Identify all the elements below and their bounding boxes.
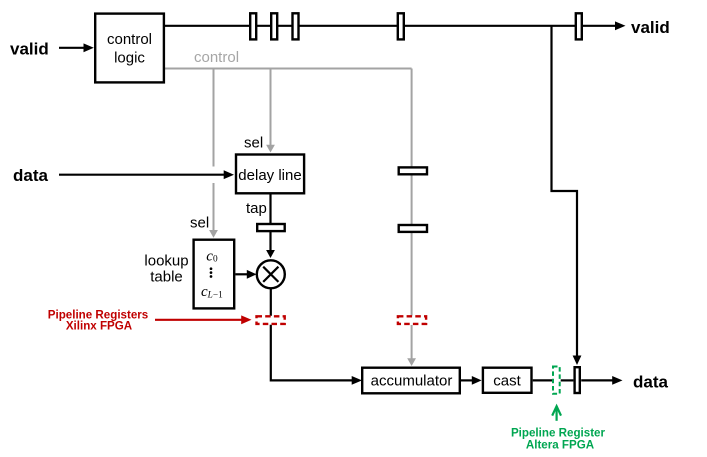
register R9 pipeline register Altera (green dashed) (553, 367, 560, 394)
node lookup table label (144, 253, 188, 286)
svg-text:delay line: delay line (238, 167, 301, 184)
wire gray sel line to delay line (266, 69, 275, 153)
wire arrowhead into output register (573, 356, 582, 366)
register R7 pipeline register Xilinx (red dashed) on multiplier line (257, 316, 285, 324)
svg-text:data: data (633, 372, 669, 391)
register R1 on valid bus (250, 13, 256, 39)
wire tap line from delay line to multiplier (266, 195, 275, 259)
node Pipeline Register Altera FPGA annotation (511, 427, 606, 452)
control logic U1 (95, 14, 164, 83)
wire data output arrow (581, 376, 622, 385)
svg-text:control: control (107, 31, 152, 48)
register R2 on valid bus (271, 13, 277, 39)
cast U5 (483, 368, 532, 393)
register R11 on control line (399, 167, 427, 174)
register R10 output data register (575, 367, 580, 393)
wire red annotation arrow (155, 315, 252, 324)
wire cast to output register (533, 379, 552, 381)
wire between green register and output register (561, 379, 574, 381)
wire gray control bus (165, 68, 412, 70)
svg-text:sel: sel (190, 215, 209, 232)
node Pipeline Registers Xilinx FPGA annotation (48, 308, 149, 332)
wire multiplier to accumulator (271, 288, 362, 385)
wire accumulator to cast (461, 376, 482, 385)
wire gray sel line to lookup table (gap at data crossing) (209, 69, 218, 238)
accumulator U4 (362, 368, 460, 394)
wire valid output arrowhead (615, 21, 626, 30)
multiplier M1 (257, 260, 285, 288)
svg-text:logic: logic (114, 50, 145, 67)
wire gray control line to accumulator (407, 69, 416, 367)
register R5 on valid bus (576, 13, 582, 39)
svg-text:control: control (194, 49, 239, 66)
register R6 on tap line (257, 224, 285, 231)
lookup table U3 (194, 240, 235, 309)
svg-text:tap: tap (246, 200, 267, 217)
svg-text:Xilinx FPGA: Xilinx FPGA (66, 319, 133, 332)
svg-text:data: data (13, 166, 49, 185)
wire data input arrow (59, 170, 234, 179)
register R4 on valid bus (398, 13, 404, 39)
svg-text:valid: valid (10, 40, 49, 59)
svg-text:cast: cast (493, 373, 521, 390)
svg-text:lookup: lookup (144, 253, 188, 270)
svg-text:valid: valid (631, 18, 670, 37)
wire junction drop from valid bus to output register (552, 26, 578, 358)
delay line U2 (236, 155, 304, 194)
svg-text:table: table (150, 269, 183, 286)
wire top valid bus (165, 25, 616, 27)
svg-text:sel: sel (244, 135, 263, 152)
svg-text:accumulator: accumulator (371, 373, 453, 390)
wire green annotation arrow (552, 406, 561, 421)
svg-text:Altera FPGA: Altera FPGA (526, 439, 595, 452)
register R3 on valid bus (293, 13, 299, 39)
register R8 pipeline register Xilinx (red dashed) on control line (398, 316, 426, 324)
register R12 on control line (399, 225, 427, 232)
wire valid input arrow (59, 43, 94, 52)
wire lookup table to multiplier (235, 270, 256, 279)
